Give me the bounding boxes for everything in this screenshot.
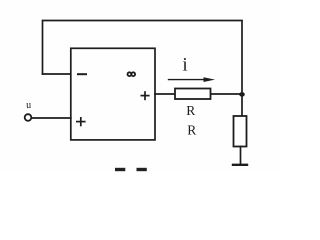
svg-text:R: R (186, 103, 195, 118)
svg-text:i: i (182, 55, 187, 76)
svg-text:R: R (187, 122, 196, 137)
svg-text:u: u (26, 100, 31, 111)
